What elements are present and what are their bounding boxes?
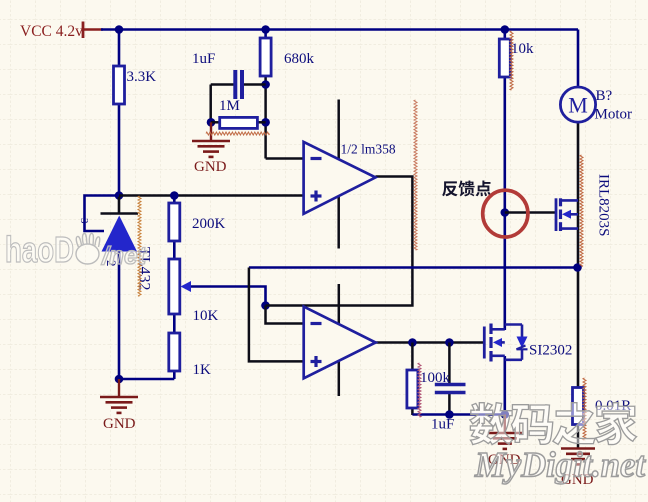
node cap2 top [445, 338, 454, 347]
resistor 1K [169, 333, 180, 371]
node rail 3.3K [115, 25, 124, 34]
squiggle 0.01R [583, 378, 586, 440]
motor B? M1 [560, 87, 595, 122]
wire SI2302 source down [503, 356, 506, 415]
op-amp U1 1/2 lm358 [304, 142, 376, 214]
svg-text:B?: B? [596, 88, 613, 104]
ground GND top middle [210, 122, 212, 141]
wire opamp1 output feedback to node B [266, 177, 413, 306]
node cap2 bottom [445, 410, 454, 419]
squiggle TL432 [138, 196, 141, 296]
pot wiper arrow [181, 281, 192, 292]
watermark shumazhijia [470, 403, 637, 445]
ground GND left [118, 379, 120, 397]
svg-text:Motor: Motor [595, 107, 633, 123]
svg-text:M: M [568, 93, 588, 118]
svg-text:680k: 680k [284, 51, 315, 67]
wire motor to drain and down to sense resistor [577, 121, 580, 389]
node A junction [115, 191, 124, 200]
wire node B to opamp2 minus [266, 306, 304, 324]
node 680k top [261, 25, 270, 34]
wire cap left leads [211, 83, 234, 86]
node 1M right [261, 118, 270, 127]
squiggle opamp1 output line [414, 100, 417, 250]
svg-text:GND: GND [103, 416, 136, 432]
op-amp U2 1/2 lm358 [304, 307, 376, 379]
capacitor 1uF bottom [435, 383, 466, 387]
svg-text:200K: 200K [192, 216, 226, 232]
node 10k top [501, 25, 510, 34]
wire main horizontal to opamp1 plus [119, 194, 304, 197]
wire feedback node to SI drain [503, 213, 506, 331]
TL432 regulator [101, 212, 139, 215]
feedback point red circle [483, 190, 528, 237]
wire bottom rail to SI source ground [412, 413, 504, 416]
wire TL432 anode down to ground node [118, 250, 121, 379]
resistor 680k [260, 38, 271, 76]
op-amp U2 power pins [338, 284, 341, 396]
wire 10K to 1K [173, 313, 176, 334]
wire cap2 bottom lead [448, 393, 451, 415]
transistor IRL8203S [555, 198, 558, 231]
ground GND bottom right [561, 447, 595, 450]
watermark haoDIY.net [5, 229, 148, 270]
feedback point label [442, 181, 491, 197]
wire TL432 cathode stub [118, 196, 121, 215]
wire gate of IRL8203S [505, 211, 555, 214]
wire 0.01R bottom to ground [577, 424, 580, 448]
svg-text:1K: 1K [193, 362, 212, 378]
svg-text:1/2 lm358: 1/2 lm358 [341, 142, 396, 157]
SI2302 body diode [505, 323, 522, 326]
wire pot wiper to node B [190, 287, 266, 306]
svg-text:3: 3 [78, 218, 90, 224]
wire right drop to motor [577, 30, 580, 89]
wire left column from rail to 3.3K [118, 30, 121, 68]
wire TL432 ref feedback loop [85, 196, 120, 232]
VCC power port bar [82, 22, 85, 39]
squiggle 10k [510, 31, 513, 90]
svg-text:10k: 10k [511, 41, 534, 57]
wire cap2 top lead [448, 343, 451, 385]
resistor 10k [499, 39, 510, 77]
svg-text:1M: 1M [219, 98, 240, 114]
svg-text:SI2302: SI2302 [529, 343, 572, 359]
svg-text:3.3K: 3.3K [127, 69, 157, 85]
capacitor 1uF top [233, 70, 237, 99]
node 100k top [408, 338, 417, 347]
node 200K top [170, 191, 179, 200]
ground GND under SI2302 [504, 415, 506, 434]
wire 100k leads [411, 343, 414, 372]
node B junction [261, 301, 270, 310]
resistor 3.3K [114, 66, 125, 104]
wire 680k bottom through cap and 1M nodes to opamp1 minus [264, 75, 267, 159]
wire cap left down to 1M left node [209, 85, 212, 123]
svg-text:1uF: 1uF [192, 51, 215, 67]
node 1M left [207, 118, 216, 127]
svg-text:GND: GND [194, 159, 227, 175]
svg-text:1uF: 1uF [431, 417, 454, 433]
potentiometer 10K [169, 259, 180, 314]
svg-text:haoD: haoD [5, 229, 74, 270]
svg-text:VCC 4.2v: VCC 4.2v [20, 23, 83, 40]
node ground left [115, 375, 124, 384]
wire 1M leads [211, 121, 220, 124]
wire 3.3K to node A [118, 103, 121, 196]
resistor 200K [169, 203, 180, 241]
wire 200K leads [173, 196, 176, 205]
wire opamp1 minus stub [266, 157, 304, 160]
node sense at IRL source [573, 263, 582, 272]
svg-text:/net: /net [101, 242, 148, 270]
node feedback point [501, 208, 510, 217]
op-amp U1 power pins [337, 100, 340, 249]
wire 680k column top [264, 30, 267, 40]
wire top VCC rail [101, 28, 578, 31]
svg-text:10K: 10K [193, 308, 219, 324]
resistor 0.01R [573, 388, 584, 425]
resistor 1M [220, 117, 258, 128]
resistor 100k [407, 370, 418, 408]
node SI source ground [501, 410, 510, 419]
squiggle under 1M [206, 132, 269, 135]
wire bottom left to ground [119, 378, 174, 381]
wire sense to opamp2 plus [249, 268, 304, 362]
svg-text:IRL8203S: IRL8203S [596, 174, 612, 237]
wire 1K to bottom rail [173, 370, 176, 379]
svg-text:MyDigit.net: MyDigit.net [474, 445, 646, 485]
squiggle IRL8203S [580, 155, 583, 266]
wire current sense line [249, 266, 578, 269]
node cap right [261, 80, 270, 89]
wire 10k top lead [503, 30, 506, 41]
wire opamp2 output to SI2302 gate [376, 341, 485, 344]
transistor SI2302 [483, 327, 486, 359]
wire 10k bottom to feedback node [503, 76, 506, 213]
squiggle 100k [418, 363, 421, 417]
